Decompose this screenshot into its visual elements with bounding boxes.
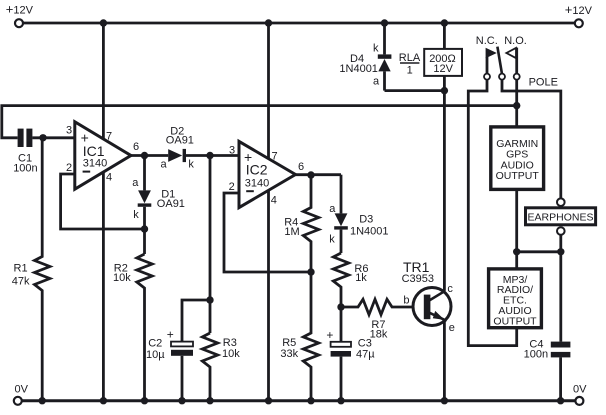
0V terminal left [14,384,29,405]
svg-text:18k: 18k [370,329,388,341]
svg-text:R5: R5 [282,337,296,349]
wire: TR1 emitter down to 0V [443,321,446,401]
svg-text:1: 1 [407,65,413,77]
wire: TR1 collector up to relay coil [443,91,446,291]
wire: detector node down to C2/R3 [182,156,214,342]
svg-text:+: + [167,327,174,341]
resistor R5 33k [280,272,318,401]
svg-text:1N4001: 1N4001 [350,225,389,237]
diode D3 1N4001 [329,175,388,253]
wire: GARMIN bottom to MP3 top [513,189,520,269]
svg-text:OUTPUT: OUTPUT [493,315,537,327]
svg-text:3: 3 [229,144,235,156]
svg-text:47k: 47k [12,276,30,288]
capacitor C4 100n [524,338,571,400]
svg-text:a: a [161,159,168,171]
svg-text:a: a [132,177,139,189]
resistor R3 10k [202,333,240,401]
relay coil RLA/1 200ohm 12V [399,23,462,91]
svg-text:+: + [244,149,252,165]
wire: IC1 supply vertical (pin7 to +12V, pin4 to 0V) [102,23,105,401]
svg-text:7: 7 [272,151,278,163]
svg-text:R1: R1 [14,263,28,275]
svg-text:3140: 3140 [83,158,107,170]
svg-text:33k: 33k [280,348,298,360]
node: earphones return junction / wire to C4 [517,235,565,342]
relay contact N.O. [504,35,527,80]
svg-text:N.C.: N.C. [476,35,498,47]
svg-text:k: k [133,209,139,221]
box: MP3/RADIO/ETC. AUDIO OUTPUT [489,269,542,328]
capacitor C2 10u electrolytic [146,327,193,400]
node: R4/R5/IC2 pin2 feedback junction [307,268,314,275]
node: C1 / R1 / IC1 pin3 junction [39,134,46,141]
resistor R4 1M [284,175,319,272]
node: detector node (D2 cathode / IC2 pin3 / C2 / R3) [206,152,213,159]
op-amp IC2 3140 [229,141,305,207]
svg-text:47µ: 47µ [356,348,375,360]
node: D4 anode / coil / collector junction [385,87,449,94]
resistor R2 10k [113,254,152,401]
svg-text:0V: 0V [573,383,587,395]
svg-text:1M: 1M [284,226,299,238]
diode D2 OA91 (peak detector) [161,125,240,170]
svg-text:k: k [329,233,335,245]
svg-text:POLE: POLE [529,77,558,89]
svg-text:N.O.: N.O. [504,35,527,47]
box: EARPHONES with terminals [526,198,596,234]
svg-text:D3: D3 [359,214,373,226]
+12V rail (top wire) [23,19,575,26]
relay pole arm [497,47,505,80]
wire: IC2 supply vertical (pin7 to +12V, pin4 to 0V) [267,23,270,401]
svg-text:OA91: OA91 [166,134,194,146]
svg-text:b: b [403,294,409,306]
svg-text:e: e [449,322,455,334]
svg-text:+: + [81,129,89,145]
svg-text:3140: 3140 [245,177,269,189]
svg-text:OA91: OA91 [157,198,185,210]
svg-text:OUTPUT: OUTPUT [496,170,540,182]
svg-text:100n: 100n [13,163,37,175]
transistor TR1 C3953 [402,259,455,334]
box: GARMIN GPS AUDIO OUTPUT [491,127,544,189]
resistor R6 1k [333,253,368,307]
op-amp IC1 3140 [66,122,139,189]
capacitor C3 47u electrolytic [326,307,375,401]
svg-text:+12V: +12V [6,2,34,17]
node: N.O. / audio line junction, wire to GARMIN top [513,80,520,127]
svg-text:+12V: +12V [565,2,593,17]
0V rail (bottom wire) [22,397,575,404]
svg-text:6: 6 [133,141,139,153]
node: R6/R7/C3 junction [337,303,344,310]
svg-text:+: + [326,328,333,342]
svg-text:R3: R3 [223,337,237,349]
diode D1 OA91 (anode from IC1 output, cathode to feedback node) [132,156,185,255]
svg-text:EARPHONES: EARPHONES [528,211,594,223]
+12V terminal left [6,2,34,28]
svg-text:4: 4 [271,194,277,206]
svg-text:6: 6 [298,161,304,173]
+12V terminal right [565,2,593,28]
svg-text:0V: 0V [15,384,29,396]
svg-text:C2: C2 [148,337,162,349]
svg-text:C3953: C3953 [402,273,434,285]
svg-text:100n: 100n [524,349,548,361]
capacitor C1 100n [13,129,75,175]
wire: audio input line from N.O. node to C1 [2,106,517,138]
resistor R7 18k [341,299,413,340]
svg-text:12V: 12V [433,63,453,75]
svg-text:3: 3 [66,125,72,137]
svg-text:10µ: 10µ [146,349,165,361]
diode D4 1N4001 (relay flyback) [339,23,391,91]
svg-text:4: 4 [106,172,112,184]
wire: POLE to earphones top terminal [502,77,561,199]
svg-text:a: a [329,203,336,215]
0V terminal right [573,383,587,405]
svg-text:1k: 1k [355,272,367,284]
wire: IC1 pin2 feedback loop [61,174,145,229]
svg-text:RLA: RLA [399,52,421,64]
resistor R1 47k [12,138,50,401]
wire: N.C. contact to MP3 output bottom [468,80,516,346]
svg-text:1N4001: 1N4001 [339,63,378,75]
svg-text:2: 2 [66,162,72,174]
relay contact N.C. [476,35,498,80]
wire: IC2 pin2 feedback loop [224,193,311,272]
svg-text:a: a [373,75,380,87]
svg-text:2: 2 [229,181,235,193]
node: IC2 output junction [296,171,342,178]
svg-text:c: c [447,283,453,295]
svg-text:10k: 10k [113,272,131,284]
svg-text:k: k [188,159,194,171]
svg-text:10k: 10k [222,348,240,360]
node: IC1 output junction [131,152,168,159]
svg-text:k: k [373,43,379,55]
svg-text:7: 7 [106,131,112,143]
